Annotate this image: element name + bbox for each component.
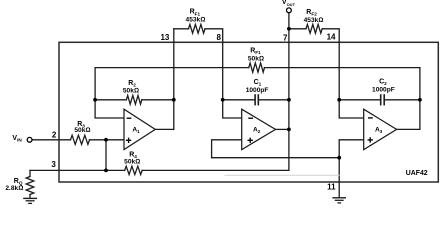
wire R2 to pin13 column [142,99,174,101]
capacitor C1 plates [254,95,256,105]
svg-text:13: 13 [160,33,169,42]
resistor R3 50k [71,135,90,144]
resistor RF2 453k [306,24,322,33]
svg-text:14: 14 [327,33,336,42]
wire A2 output [276,128,289,130]
wire pin14 column to A3 - input [339,42,364,118]
svg-text:1000pF: 1000pF [246,87,269,94]
wire pin 3 row left segment [30,169,125,171]
svg-text:VOUT: VOUT [282,0,296,7]
svg-text:7: 7 [283,33,288,42]
A3 minus pin [368,117,373,119]
resistor R4 50k [125,166,142,174]
wire V_IN to R3 [32,139,71,141]
resistor R_F1 50k (R1) [249,63,265,72]
wire RF2 row left [289,28,306,30]
node pin3 / R4 [104,169,108,173]
wire A2 + loop [212,140,242,158]
wire A3 output [397,68,420,130]
wire A1 output [155,128,174,130]
A1 plus pin [126,138,131,143]
node pin8 / C1 left [221,98,225,102]
wire A3 + loop [339,140,364,158]
wire R1 feedback row y67.6 left [95,67,249,69]
wire C2 row left [339,99,380,101]
wire R4 to pin7 column [142,169,289,171]
svg-text:50kΩ: 50kΩ [248,55,264,62]
svg-text:11: 11 [327,183,336,192]
faint wire artifact row [225,174,339,176]
svg-text:1000pF: 1000pF [372,87,395,94]
UAF42 package outline [59,42,438,182]
op-amp A1 [124,109,397,149]
node ground row / pin11 [337,156,341,160]
terminal V_OUT [287,8,292,13]
svg-text:UAF42: UAF42 [406,170,428,177]
A2 minus pin [248,117,253,119]
node C1 right [287,98,291,102]
wire RF1 bracket right / pin8 column [205,29,242,118]
op-amp A2 [242,109,276,149]
op-amp A3 [364,109,397,149]
wire R3 to A1 + input [90,139,125,141]
wire R1 row to A3 output column [265,67,420,69]
A2 plus pin [248,138,253,143]
wire pin7 column V_OUT to R4 hook [288,13,290,171]
svg-text:50kΩ: 50kΩ [124,159,140,166]
node A2 output [287,127,291,131]
svg-text:2.8kΩ: 2.8kΩ [5,185,23,192]
wire A1 - feedback column x95 [95,68,124,118]
wire RQ branch down [29,170,31,176]
svg-text:50kΩ: 50kΩ [123,88,139,95]
svg-text:3: 3 [51,160,56,169]
svg-text:8: 8 [216,33,221,42]
wire C1 row left [223,99,255,101]
resistor RF1 453k [189,24,206,33]
capacitor C2 plates [380,95,382,105]
wire node A1+ down to pin3 row [105,140,107,171]
wire R2 row [95,99,126,101]
node C2 right / A3 out [418,98,422,102]
wire RF1 bracket left [174,28,189,30]
node A1+ / R3 [104,138,108,142]
svg-text:453kΩ: 453kΩ [304,17,324,24]
ground (pin 11) [333,197,345,199]
wire RF2 to pin14 [322,29,339,43]
A1 minus pin [126,118,373,143]
wire C2 row right [384,99,420,101]
node V_OUT / RF2 [287,27,291,31]
wire RQ to ground [29,195,31,199]
resistor R2 50k [126,95,141,104]
wire ground row y157.7 [212,157,340,159]
svg-text:2: 2 [52,130,57,139]
wire pin11 ground column [338,158,340,198]
ground (RQ) [24,197,36,199]
resistor RQ 2.8k [26,177,34,195]
svg-text:50kΩ: 50kΩ [74,127,90,134]
terminal V_IN [27,137,32,142]
node pin13 / R2 right [172,98,176,102]
wire pin13 column [173,29,175,130]
svg-text:453kΩ: 453kΩ [186,17,206,24]
wire C1 row right [258,99,289,101]
A3 plus pin [368,137,373,142]
node pin14 / C2 left [337,98,341,102]
node A1- / R2 left [93,98,97,102]
